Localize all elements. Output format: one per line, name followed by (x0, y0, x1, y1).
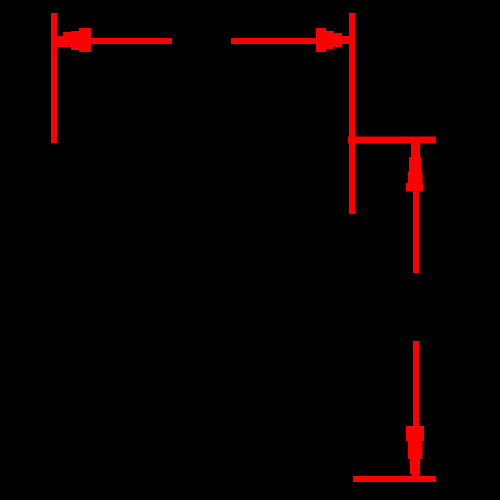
horizontal dimension line, right segment (231, 38, 349, 44)
arrowhead up (points up) (406, 143, 424, 192)
vertical dimension line, upper segment (413, 143, 419, 273)
arrowhead down (points down) (406, 426, 424, 482)
extension line bottom right (horizontal) (353, 476, 436, 482)
extension line right (vertical) (349, 13, 356, 214)
horizontal dimension line, left segment (56, 38, 172, 44)
extension line left (vertical) (51, 13, 57, 143)
extension line top right (horizontal) (348, 137, 436, 144)
arrowhead right (points right) (316, 28, 349, 52)
arrowhead left (points left) (56, 28, 91, 52)
vertical dimension line, lower segment (413, 341, 419, 481)
